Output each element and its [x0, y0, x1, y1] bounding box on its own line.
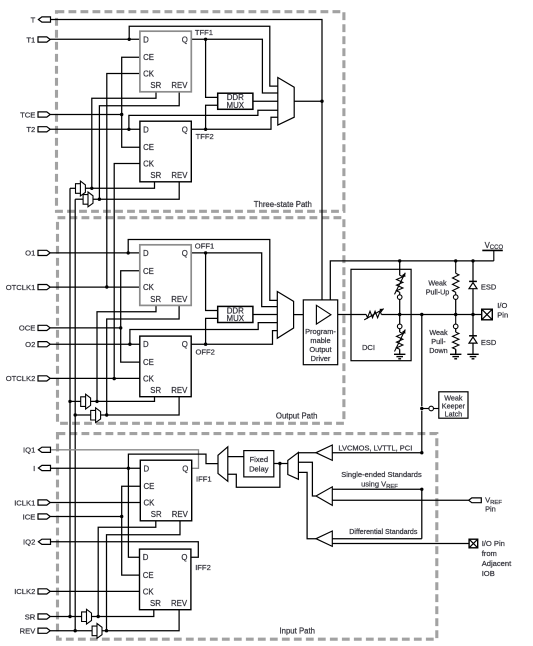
I/O pin from adjacent IOB: [469, 539, 478, 548]
svg-text:ICLK1: ICLK1: [14, 498, 35, 507]
svg-text:ICLK2: ICLK2: [14, 587, 35, 596]
svg-text:Input Path: Input Path: [279, 626, 315, 635]
wire T1 to TFF1.D: [50, 38, 140, 40]
SR bus (global): [69, 188, 71, 616]
wire OFF2.Q to output mux in5: [191, 331, 277, 345]
wire VCCO rail: [330, 261, 494, 300]
wire fixed delay to delay mux: [228, 456, 244, 458]
input pin REV: [20, 627, 51, 636]
svg-text:Down: Down: [429, 346, 447, 355]
svg-text:D: D: [143, 125, 149, 134]
label ESD bottom: [481, 338, 497, 347]
wire delay mux output to I node: [128, 454, 218, 468]
svg-text:Weak: Weak: [428, 278, 447, 287]
svg-text:Adjacent: Adjacent: [482, 559, 512, 568]
svg-text:CE: CE: [143, 143, 154, 152]
svg-text:SR: SR: [150, 295, 161, 304]
input pin ICE: [23, 512, 51, 521]
input pin ICLK2: [14, 587, 50, 596]
svg-text:IQ2: IQ2: [23, 538, 35, 547]
wire IQ2 to IFF2.Q: [51, 542, 198, 557]
wire OTCLK1 to OFF1.CK: [50, 286, 140, 288]
svg-text:MUX: MUX: [227, 314, 245, 323]
svg-text:T2: T2: [26, 125, 35, 134]
svg-text:TCE: TCE: [20, 110, 35, 119]
svg-text:OFF2: OFF2: [196, 348, 215, 357]
svg-text:D: D: [143, 553, 149, 562]
wire OFF1.Q tap to DDR MUX in1: [206, 253, 218, 311]
DCI series impedance resistor: [364, 309, 384, 320]
wire TFF1.REV: [99, 92, 179, 199]
wire SR bus into three-state SR mux: [70, 187, 76, 189]
flip-flop OFF1: [140, 241, 214, 305]
REV bus (global): [74, 199, 76, 631]
CE bus OFF1/OFF2: [121, 271, 140, 362]
input pin SR: [25, 612, 50, 621]
svg-text:CE: CE: [143, 267, 154, 276]
wire REV mux output to IFF2.REV: [102, 610, 179, 631]
flip-flop TFF2: [140, 121, 214, 182]
output pin T: [31, 15, 51, 24]
DDR MUX (output): [218, 306, 253, 323]
wire T to three-state mux output node: [51, 20, 322, 300]
ground (pull-down): [450, 354, 461, 359]
section box Input Path: [58, 434, 437, 640]
wire REV mux output to TFF2.REV: [93, 182, 179, 199]
wire VREF bias to VREF pin: [332, 499, 468, 501]
wire OFF1.SR: [97, 305, 156, 401]
svg-text:SR: SR: [151, 510, 162, 519]
wire DCI pull-up column: [399, 261, 401, 275]
svg-text:D: D: [144, 464, 150, 473]
svg-text:OFF1: OFF1: [195, 241, 214, 250]
wire REV bus into output REV mux: [75, 414, 91, 416]
svg-text:O1: O1: [25, 249, 35, 258]
wire TFF1.CK to OTCLK1: [107, 74, 140, 288]
svg-text:REV: REV: [172, 510, 189, 519]
svg-text:Q: Q: [182, 249, 188, 258]
wire OFF2.Q tap to DDR MUX in2: [206, 318, 218, 344]
pin VREF: [469, 498, 482, 503]
wire OTCLK2 to OFF2.CK: [50, 377, 140, 379]
svg-text:CE: CE: [143, 53, 154, 62]
label Single-ended Standards using VREF: [341, 470, 422, 490]
inverter-select mux input REV polarity: [92, 624, 102, 639]
svg-text:Delay: Delay: [249, 465, 269, 474]
input pin OTCLK2: [6, 374, 50, 383]
weak pull-down zigzag: [453, 332, 459, 349]
flip-flop IFF2: [140, 549, 211, 610]
input pin O1: [25, 249, 50, 258]
wire SR bus into output SR mux: [70, 400, 81, 402]
svg-text:SR: SR: [150, 81, 161, 90]
fixed delay block: [244, 451, 274, 477]
svg-text:O2: O2: [25, 340, 35, 349]
wire pad to VREF buffer: [332, 488, 422, 490]
label VREF Pin: [485, 495, 502, 513]
wire SR mux output to OFF2.SR: [91, 397, 155, 402]
weak pull-up zigzag: [453, 273, 459, 292]
wire TFF2.CK to OTCLK2: [114, 164, 140, 379]
wire OFF1.REV: [107, 305, 179, 415]
wire output mux to programmable output driver: [294, 314, 304, 316]
svg-text:T: T: [31, 15, 36, 24]
svg-text:LVCMOS, LVTTL, PCI: LVCMOS, LVTTL, PCI: [338, 444, 412, 453]
CE bus TFF1/TFF2: [122, 57, 140, 147]
input pin ICLK1: [14, 498, 50, 507]
standards select mux: [288, 452, 299, 479]
svg-text:Single-ended Standards: Single-ended Standards: [341, 470, 422, 479]
ESD diode (to GND): [469, 336, 477, 343]
flip-flop IFF1: [140, 460, 211, 521]
svg-text:IFF2: IFF2: [195, 563, 211, 572]
I/O pad pin: [482, 309, 493, 320]
input buffer single-ended VREF: [316, 487, 332, 506]
svg-text:Weak: Weak: [429, 328, 448, 337]
weak keeper latch: [439, 392, 468, 419]
svg-text:CE: CE: [143, 358, 154, 367]
input buffer differential: [316, 531, 332, 546]
wire T2 to TFF2.D: [50, 128, 140, 130]
label Input Path: [279, 626, 315, 635]
svg-text:Pull-: Pull-: [431, 337, 446, 346]
wire REV bus into three-state REV mux: [75, 198, 83, 200]
input buffer LVCMOS/LVTTL/PCI: [316, 445, 332, 460]
wire DCI pull-down column: [399, 315, 401, 325]
svg-text:OTCLK1: OTCLK1: [6, 283, 36, 292]
output pin IQ1: [23, 446, 50, 455]
svg-text:D: D: [143, 249, 149, 258]
output pin I: [33, 464, 50, 473]
label ESD top: [481, 282, 497, 291]
svg-text:CK: CK: [144, 499, 156, 508]
wire three-state mux output: [294, 100, 322, 102]
wire TCE to CE bus: [50, 114, 122, 116]
svg-text:I: I: [33, 464, 35, 473]
inverter-select mux three-state REV polarity: [83, 192, 93, 207]
wire O1 to OFF1.D: [50, 252, 140, 254]
wire IFF1.REV: [107, 521, 181, 631]
input pin OTCLK1: [6, 283, 50, 292]
svg-text:SR: SR: [150, 386, 161, 395]
label Output Path: [276, 412, 318, 421]
label Weak Pull-Up: [426, 278, 450, 296]
svg-text:REV: REV: [171, 386, 188, 395]
svg-text:OTCLK2: OTCLK2: [6, 374, 36, 383]
CE bus IFF1/IFF2: [122, 486, 141, 575]
wire REV mux output to OFF2.REV: [101, 397, 180, 415]
svg-text:Differential Standards: Differential Standards: [349, 528, 418, 536]
label Three-state Path: [254, 200, 312, 209]
svg-text:IFF1: IFF1: [196, 474, 212, 483]
svg-text:I/O: I/O: [497, 301, 507, 310]
wire T2 bypass to three-state mux in4: [129, 110, 278, 129]
wire IQ1 to IFF1.Q (gray): [51, 450, 199, 469]
wire O1 bypass to output mux in1: [128, 240, 277, 301]
wire O2 to OFF2.D: [50, 343, 140, 345]
svg-text:REV: REV: [171, 171, 188, 180]
svg-text:SR: SR: [150, 171, 161, 180]
svg-text:REV: REV: [171, 599, 188, 608]
svg-text:CK: CK: [143, 70, 155, 79]
svg-text:D: D: [143, 35, 149, 44]
svg-text:Output Path: Output Path: [276, 412, 318, 421]
flip-flop TFF1: [140, 28, 213, 92]
input pin T2: [26, 125, 50, 134]
wire driver output to I/O pad: [338, 314, 367, 316]
svg-text:from: from: [482, 549, 497, 558]
inverter-select mux output SR polarity: [81, 394, 91, 409]
wire adjacent IOB pad to differential buffer: [332, 543, 469, 545]
svg-text:Three-state Path: Three-state Path: [254, 200, 312, 209]
svg-text:TFF1: TFF1: [195, 28, 213, 37]
output mux: [277, 292, 293, 339]
wire ICLK1 to IFF1.CK: [50, 502, 140, 504]
svg-text:Latch: Latch: [445, 409, 463, 418]
svg-text:REV: REV: [171, 295, 188, 304]
svg-text:Pull-Up: Pull-Up: [426, 287, 450, 296]
ground (DCI): [394, 354, 405, 359]
label Differential Standards: [349, 528, 418, 536]
wire ESD top column: [472, 261, 474, 282]
svg-text:CE: CE: [144, 482, 155, 491]
label I/O Pin from Adjacent IOB: [482, 539, 512, 578]
wire IFF1.SR: [98, 521, 156, 617]
svg-text:T1: T1: [26, 35, 35, 44]
wire VREF buffer to standards mux: [298, 462, 316, 496]
label I/O Pin: [497, 301, 508, 320]
section box Three-state Path: [57, 12, 344, 212]
DCI block: [351, 269, 411, 360]
svg-text:TFF2: TFF2: [196, 132, 214, 141]
weak pull-down resistor: [455, 315, 457, 354]
DCI pull-up resistor: [395, 273, 406, 295]
svg-text:CK: CK: [143, 160, 155, 169]
svg-text:REV: REV: [20, 627, 37, 636]
svg-text:IOB: IOB: [482, 569, 495, 578]
wire standards mux to fixed delay: [274, 463, 288, 465]
svg-text:Driver: Driver: [311, 354, 331, 363]
svg-text:mable: mable: [310, 336, 330, 345]
wire T1 bypass to three-state mux in1: [129, 26, 278, 86]
wire pull-up to pad: [455, 299, 457, 314]
wire TFF2.Q to three-state mux in5: [191, 117, 277, 129]
svg-text:SR: SR: [25, 612, 36, 621]
svg-text:IQ1: IQ1: [23, 446, 35, 455]
wire TFF1.Q to three-state mux in2: [191, 39, 277, 93]
flip-flop OFF2: [140, 336, 215, 397]
svg-text:ICE: ICE: [23, 512, 36, 521]
ESD diode (to VCCO): [469, 281, 477, 288]
svg-text:ESD: ESD: [481, 282, 497, 291]
svg-text:Q: Q: [181, 553, 187, 562]
wire keeper tap: [422, 408, 439, 410]
svg-text:Pin: Pin: [485, 505, 496, 514]
svg-text:CK: CK: [143, 283, 155, 292]
svg-text:Output: Output: [309, 345, 331, 354]
wire TFF2.Q tap to DDR MUX in2: [206, 105, 218, 129]
wire delay bypass: [228, 464, 280, 488]
svg-text:I/O Pin: I/O Pin: [482, 539, 505, 548]
svg-text:OCE: OCE: [19, 324, 35, 333]
svg-text:DCI: DCI: [362, 343, 375, 352]
wire pad to input buffers: [421, 315, 423, 407]
wire TFF1.Q tap to DDR MUX in1: [206, 39, 218, 97]
power VCCO: [482, 241, 503, 261]
svg-text:REV: REV: [171, 81, 188, 90]
svg-text:Program-: Program-: [305, 327, 336, 336]
svg-text:Pin: Pin: [497, 311, 508, 320]
svg-text:Q: Q: [182, 464, 188, 473]
inverter-select mux output REV polarity: [91, 408, 101, 423]
wire pad to differential buffer: [332, 538, 422, 540]
svg-text:ESD: ESD: [481, 338, 497, 347]
ground (ESD): [467, 354, 478, 359]
svg-text:Q: Q: [182, 35, 188, 44]
inverter-select mux input SR polarity: [82, 609, 92, 624]
svg-text:MUX: MUX: [227, 101, 245, 110]
label LVCMOS, LVTTL, PCI: [338, 444, 412, 453]
svg-text:Fixed: Fixed: [250, 455, 269, 464]
input pin O2: [25, 340, 50, 349]
wire I node to IFF2.D: [128, 468, 139, 557]
programmable output driver U1: [303, 300, 337, 365]
DDR MUX (three-state): [218, 93, 253, 110]
svg-text:CK: CK: [143, 587, 155, 596]
input pin TCE: [20, 110, 50, 119]
DCI pull-down resistor: [395, 330, 406, 352]
svg-text:Q: Q: [182, 340, 188, 349]
wire SR mux output to IFF2.SR: [92, 610, 154, 617]
svg-text:CK: CK: [143, 374, 155, 383]
delay select mux: [218, 447, 228, 482]
label Weak Pull-Down: [429, 328, 448, 355]
wire DDR MUX out to output mux in3: [253, 314, 277, 316]
wire OFF1.Q to output mux in2: [191, 253, 277, 307]
wire LVCMOS buffer to standards mux: [298, 452, 316, 454]
wire ICE to CE bus: [50, 516, 122, 518]
wire SR pin to input SR mux: [50, 616, 81, 618]
svg-text:D: D: [143, 340, 149, 349]
wire pad to LVCMOS buffer: [332, 452, 422, 454]
wire OCE to CE bus: [50, 327, 121, 329]
wire SR mux output to TFF2.SR: [85, 182, 154, 188]
svg-text:Q: Q: [182, 125, 188, 134]
input pin T1: [26, 35, 50, 44]
inverter-select mux three-state SR polarity: [76, 181, 86, 196]
wire REV pin to input REV mux: [50, 630, 92, 632]
wire O2 bypass to output mux in4: [130, 323, 277, 345]
three-state output mux: [278, 78, 294, 126]
output pin IQ2: [23, 538, 50, 547]
wire ESD bottom column: [472, 315, 474, 336]
wire differential buffer to standards mux: [298, 472, 316, 538]
input pin OCE: [19, 324, 50, 333]
wire TFF1.SR: [92, 92, 156, 189]
wire I node: [51, 467, 140, 469]
svg-text:CE: CE: [143, 571, 154, 580]
section box Output Path: [58, 218, 344, 424]
svg-text:SR: SR: [150, 599, 161, 608]
wire DDR MUX out to three-state mux in3: [253, 100, 278, 102]
wire ICLK2 to IFF2.CK: [50, 590, 139, 592]
weak pull-up resistor: [455, 261, 457, 295]
